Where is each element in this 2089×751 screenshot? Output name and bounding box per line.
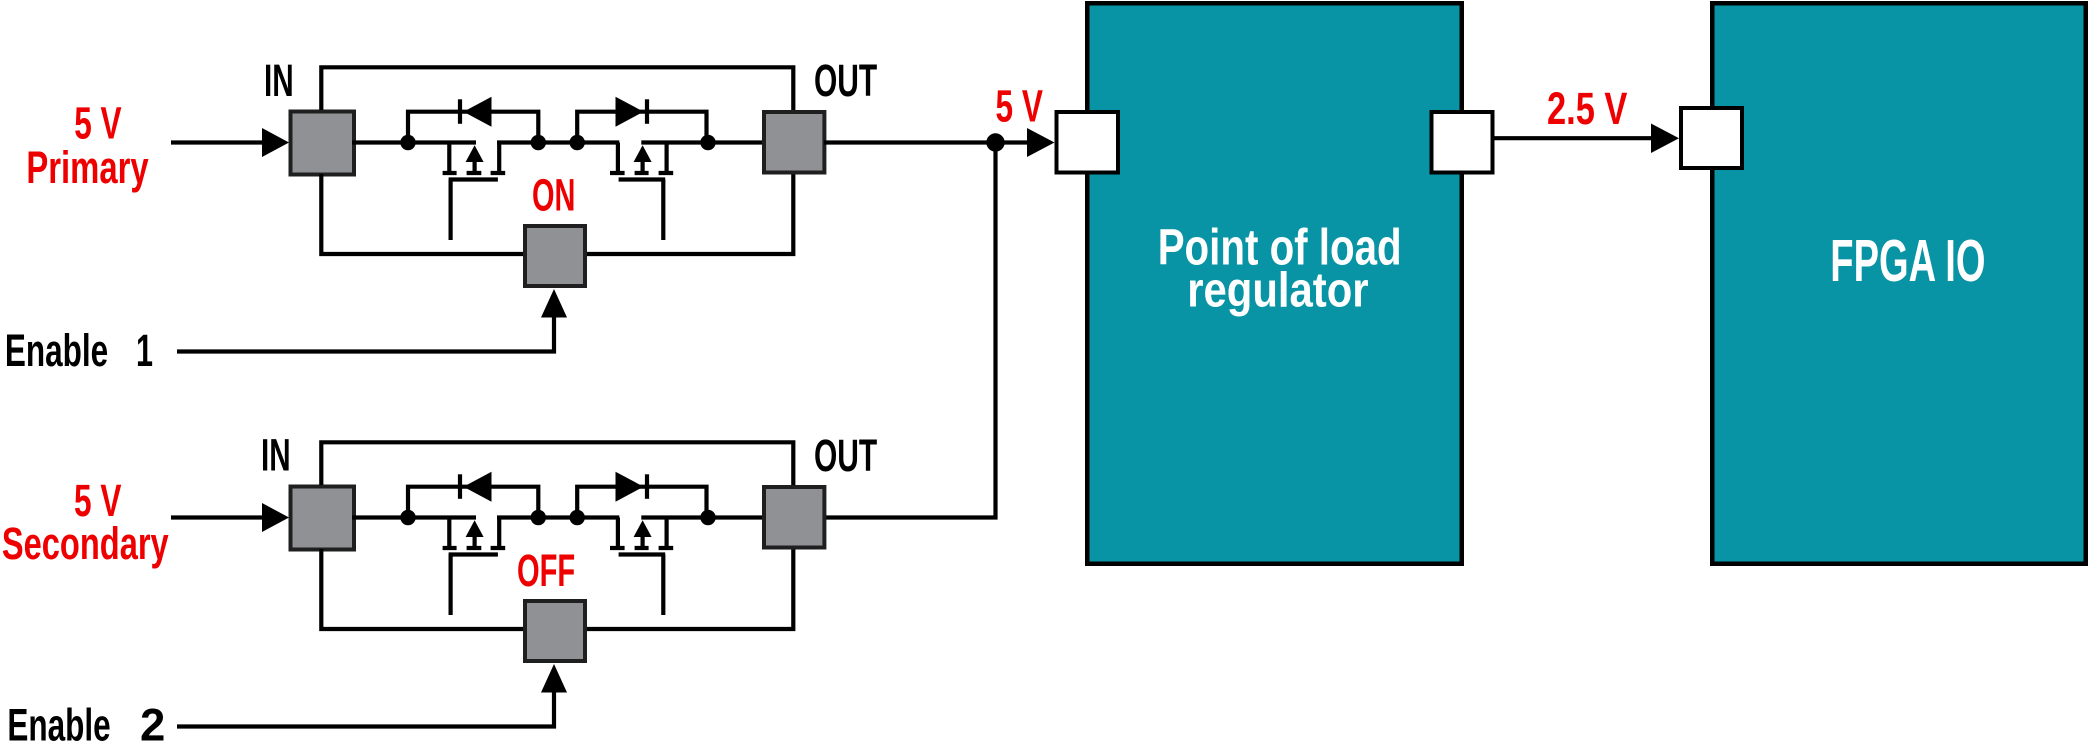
svg-text:Secondary: Secondary <box>2 518 169 569</box>
arrowhead into regulator input pin <box>1027 128 1055 157</box>
pin: regulator input <box>1057 112 1119 173</box>
arrowhead into FPGA pin <box>1651 124 1679 154</box>
pin: regulator output <box>1432 112 1493 173</box>
svg-text:1: 1 <box>136 325 153 376</box>
svg-text:Enable: Enable <box>7 699 110 750</box>
load switch 1 (5 V Primary) structure <box>171 67 824 351</box>
svg-text:OFF: OFF <box>517 545 575 596</box>
svg-text:IN: IN <box>261 430 291 481</box>
wire: switch 1 output to 5 V junction <box>824 140 1028 144</box>
load switch 2 (5 V Secondary) structure <box>171 442 824 726</box>
svg-text:regulator: regulator <box>1187 263 1368 318</box>
svg-text:5 V: 5 V <box>996 81 1044 132</box>
block: Point of load regulator <box>1087 3 1462 564</box>
pin: FPGA IO input <box>1681 108 1742 168</box>
wire: 2.5 V feed <box>1492 136 1652 140</box>
svg-text:5 V: 5 V <box>74 98 122 149</box>
svg-text:2: 2 <box>140 699 165 750</box>
junction node 5 V <box>986 133 1004 151</box>
wire: junction down to switch 2 output <box>824 143 996 518</box>
block: FPGA IO <box>1712 3 2086 564</box>
svg-text:OUT: OUT <box>814 55 877 106</box>
svg-text:ON: ON <box>532 170 575 221</box>
svg-text:FPGA IO: FPGA IO <box>1830 228 1985 294</box>
svg-text:IN: IN <box>264 55 294 106</box>
svg-text:2.5 V: 2.5 V <box>1547 83 1628 134</box>
svg-text:OUT: OUT <box>814 430 877 481</box>
svg-text:Primary: Primary <box>26 142 149 193</box>
svg-text:Enable: Enable <box>5 325 108 376</box>
